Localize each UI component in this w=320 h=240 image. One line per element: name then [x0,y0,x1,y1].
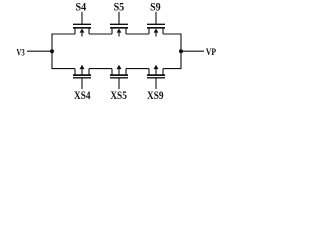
wire top rail segment 2 [89,33,112,35]
wire top rail segment 1 [52,33,75,35]
junction dot at VP [179,49,183,53]
wire top rail segment 4 [163,33,181,35]
svg-text:VP: VP [206,47,217,57]
svg-text:V3: V3 [17,48,26,58]
wire V3 stub [27,50,52,52]
transistor XS5 [110,65,128,102]
wire bottom rail segment 4 [163,68,181,70]
junction dot at V3 [50,49,54,53]
wire right vertical bar [180,34,182,70]
svg-text:S5: S5 [114,0,125,14]
wire bottom rail segment 3 [126,68,149,70]
wire bottom rail segment 1 [52,68,75,70]
wire VP stub [181,50,204,52]
svg-text:S4: S4 [76,0,87,14]
transistor S5 [110,0,128,37]
wire bottom rail segment 2 [89,68,112,70]
wire left vertical bar [51,34,53,70]
node VP [206,47,217,57]
transistor S9 [147,0,165,37]
svg-text:XS5: XS5 [110,90,127,102]
svg-text:XS4: XS4 [74,90,91,102]
transistor XS9 [147,65,165,102]
svg-text:XS9: XS9 [147,90,164,102]
node V3 [17,48,26,58]
wire top rail segment 3 [126,33,149,35]
transistor S4 [73,0,91,37]
svg-text:S9: S9 [150,0,161,14]
transistor XS4 [73,65,91,102]
